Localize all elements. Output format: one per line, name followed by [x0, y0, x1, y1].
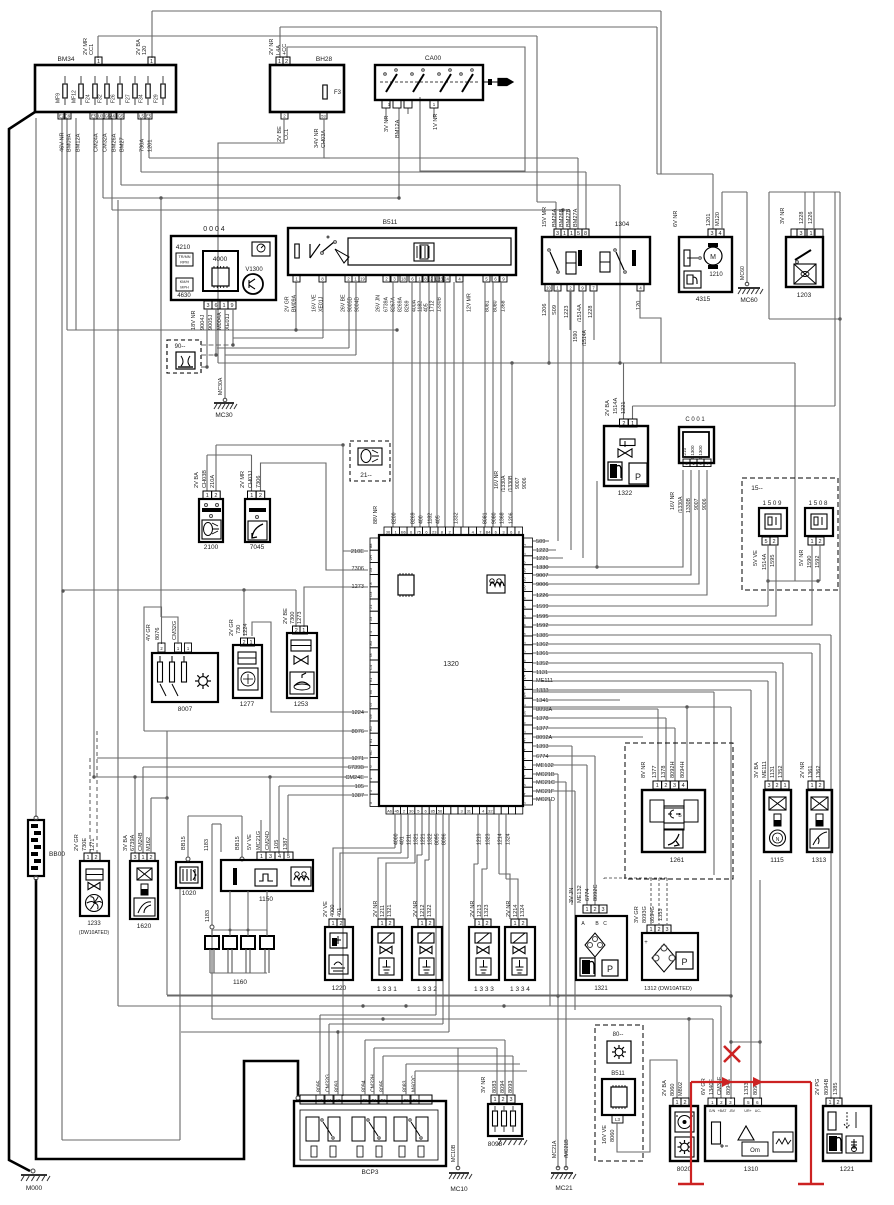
svg-text:9006: 9006: [536, 582, 548, 588]
svg-text:210A: 210A: [210, 475, 216, 488]
svg-text:BM12A: BM12A: [395, 119, 401, 138]
svg-text:1333: 1333: [536, 688, 548, 694]
svg-text:XE01J: XE01J: [225, 313, 231, 330]
svg-text:1131: 1131: [536, 670, 548, 676]
svg-text:1160: 1160: [233, 979, 247, 986]
svg-text:1352: 1352: [536, 661, 548, 667]
svg-text:BB00: BB00: [49, 851, 65, 858]
svg-text:80: 80: [368, 640, 373, 645]
svg-text:2V NR: 2V NR: [269, 39, 275, 55]
svg-text:1226: 1226: [808, 212, 814, 224]
svg-text:9007: 9007: [515, 477, 521, 489]
svg-text:1352: 1352: [778, 766, 784, 778]
svg-text:MC21B: MC21B: [536, 772, 555, 778]
svg-text:2V NR: 2V NR: [506, 901, 512, 917]
svg-text:1223: 1223: [536, 548, 548, 554]
svg-text:N: N: [776, 837, 780, 843]
svg-text:26V BE: 26V BE: [341, 294, 347, 312]
svg-text:3: 3: [665, 927, 668, 933]
svg-text:CH03J: CH03J: [248, 471, 254, 488]
svg-text:2: 2: [501, 1097, 504, 1103]
svg-text:A5: A5: [335, 1098, 341, 1103]
svg-text:1: 1: [783, 783, 786, 789]
svg-text:1150: 1150: [259, 896, 273, 903]
svg-text:4000: 4000: [213, 256, 228, 263]
svg-text:MC30: MC30: [215, 412, 233, 419]
svg-text:2: 2: [593, 907, 596, 913]
svg-text:M: M: [710, 254, 716, 261]
svg-text:730E: 730E: [82, 838, 88, 851]
svg-text:1323: 1323: [484, 905, 490, 917]
svg-text:CC1: CC1: [89, 44, 95, 55]
svg-text:2V VE: 2V VE: [323, 901, 329, 917]
svg-text:1362: 1362: [536, 642, 548, 648]
svg-text:1V NR: 1V NR: [433, 114, 439, 130]
svg-text:C4: C4: [368, 664, 373, 670]
svg-text:1310: 1310: [744, 1166, 759, 1173]
svg-text:1224: 1224: [352, 710, 364, 716]
svg-text:1211: 1211: [380, 905, 386, 917]
svg-text:5V NR: 5V NR: [799, 550, 805, 566]
svg-text:F3: F3: [334, 90, 342, 96]
svg-text:P: P: [635, 472, 641, 482]
svg-text:1253: 1253: [294, 701, 309, 708]
svg-text:35: 35: [522, 576, 527, 581]
svg-text:6: 6: [214, 303, 217, 309]
svg-text:2: 2: [388, 921, 391, 927]
svg-text:3: 3: [206, 303, 209, 309]
svg-text:2: 2: [664, 783, 667, 789]
svg-text:15--: 15--: [751, 485, 763, 492]
svg-text:1213: 1213: [477, 905, 483, 917]
svg-text:MC10B: MC10B: [451, 1144, 457, 1162]
svg-text:MC21F: MC21F: [536, 789, 555, 795]
svg-text:UR+: UR+: [744, 1109, 751, 1113]
svg-text:C5: C5: [403, 1098, 409, 1103]
svg-text:2: 2: [149, 855, 152, 861]
svg-text:1020: 1020: [182, 890, 197, 897]
svg-text:8200: 8200: [392, 512, 398, 524]
svg-text:BB15: BB15: [235, 836, 241, 850]
svg-text:C 0 0 1: C 0 0 1: [685, 417, 705, 423]
svg-text:2: 2: [295, 628, 298, 634]
svg-text:1212: 1212: [420, 905, 426, 917]
svg-text:1592: 1592: [536, 623, 548, 629]
svg-text:23: 23: [432, 530, 437, 535]
svg-text:1: 1: [249, 640, 252, 646]
svg-text:8269: 8269: [405, 300, 411, 312]
svg-text:7045: 7045: [250, 544, 265, 551]
svg-text:1: 1: [380, 921, 383, 927]
svg-text:6V GR: 6V GR: [701, 1078, 707, 1095]
svg-text:2: 2: [339, 921, 342, 927]
svg-text:D6: D6: [522, 585, 527, 591]
svg-text:V1300: V1300: [245, 267, 263, 273]
svg-text:1: 1: [631, 421, 634, 427]
svg-text:26V JN: 26V JN: [376, 295, 382, 312]
svg-text:1115: 1115: [770, 857, 784, 864]
svg-text:/1330A: /1330A: [501, 475, 507, 492]
svg-text:CH03B: CH03B: [202, 470, 208, 488]
svg-text:6774: 6774: [585, 889, 591, 901]
svg-text:MC21D: MC21D: [536, 797, 555, 803]
svg-text:1324: 1324: [520, 905, 526, 917]
svg-text:1206: 1206: [509, 512, 515, 524]
svg-text:730A: 730A: [140, 139, 146, 152]
svg-text:E5: E5: [146, 114, 152, 119]
svg-text:ME132: ME132: [536, 763, 554, 769]
svg-text:69: 69: [368, 714, 373, 719]
svg-text:1385: 1385: [833, 1083, 839, 1095]
svg-text:MF12: MF12: [72, 90, 78, 103]
svg-text:C1300: C1300: [690, 445, 695, 459]
svg-text:3V NR: 3V NR: [481, 1077, 487, 1093]
svg-text:8092C: 8092C: [593, 885, 599, 901]
svg-text:16V VE: 16V VE: [602, 1125, 608, 1144]
svg-text:8092H: 8092H: [670, 762, 676, 778]
svg-text:/1514A: /1514A: [577, 304, 583, 322]
svg-text:19: 19: [360, 277, 365, 282]
svg-text:-BV: -BV: [729, 1109, 736, 1113]
svg-text:G5: G5: [118, 114, 124, 119]
svg-text:1273: 1273: [297, 612, 303, 624]
svg-text:/MC21B: /MC21B: [564, 1139, 570, 1158]
svg-text:9006: 9006: [522, 477, 528, 489]
svg-text:1: 1: [675, 1100, 678, 1106]
svg-text:XE01J: XE01J: [319, 296, 325, 312]
svg-text:2: 2: [772, 539, 775, 545]
svg-text:2: 2: [485, 921, 488, 927]
svg-text:1: 1: [141, 855, 144, 861]
svg-text:1 3 3 2: 1 3 3 2: [417, 986, 437, 993]
svg-text:21: 21: [368, 604, 373, 609]
svg-text:1203: 1203: [797, 292, 812, 299]
svg-text:3V NR: 3V NR: [780, 208, 786, 224]
svg-text:1183: 1183: [204, 839, 210, 851]
svg-text:2: 2: [94, 855, 97, 861]
svg-text:1221: 1221: [421, 833, 427, 845]
svg-text:CM24A: CM24A: [94, 133, 100, 152]
svg-text:91: 91: [368, 677, 373, 682]
svg-text:MF9: MF9: [56, 93, 62, 103]
svg-text:509: 509: [536, 539, 545, 545]
svg-text:3V NR: 3V NR: [384, 116, 390, 132]
svg-text:2V BE: 2V BE: [277, 126, 283, 142]
svg-text:9C: 9C: [368, 750, 373, 755]
svg-text:1368: 1368: [500, 512, 506, 524]
svg-text:1377: 1377: [652, 766, 658, 778]
svg-text:1: 1: [477, 921, 480, 927]
svg-text:1 5 0 8: 1 5 0 8: [809, 500, 828, 507]
svg-text:1: 1: [656, 783, 659, 789]
svg-text:56: 56: [522, 710, 527, 715]
svg-text:4: 4: [278, 854, 281, 860]
svg-text:1341: 1341: [536, 698, 548, 704]
svg-text:1: 1: [810, 783, 813, 789]
svg-text:2: 2: [775, 783, 778, 789]
svg-text:2V NR: 2V NR: [373, 901, 379, 917]
svg-text:1223: 1223: [564, 306, 570, 318]
svg-text:3: 3: [673, 783, 676, 789]
svg-text:1228: 1228: [799, 212, 805, 224]
svg-text:8: 8: [584, 231, 587, 237]
svg-text:1 3 3 3: 1 3 3 3: [474, 986, 494, 993]
svg-text:1131: 1131: [770, 766, 776, 778]
svg-text:1: 1: [260, 854, 263, 860]
svg-text:4315: 4315: [696, 296, 711, 303]
svg-text:1320: 1320: [443, 661, 459, 668]
svg-text:1201: 1201: [148, 140, 154, 152]
svg-text:46V NR: 46V NR: [60, 132, 66, 152]
svg-text:2: 2: [242, 640, 245, 646]
svg-text:ME132: ME132: [577, 885, 583, 903]
svg-text:+: +: [644, 940, 648, 946]
svg-text:RPM: RPM: [180, 261, 188, 265]
svg-text:MPH: MPH: [180, 286, 189, 290]
svg-text:/1514A: /1514A: [582, 329, 588, 346]
svg-text:1: 1: [493, 1097, 496, 1103]
svg-text:8081: 8081: [483, 512, 489, 524]
svg-text:1261: 1261: [670, 857, 685, 864]
svg-text:56: 56: [438, 809, 443, 814]
svg-text:1321: 1321: [414, 833, 420, 845]
svg-text:F29: F29: [154, 94, 160, 103]
svg-text:1362: 1362: [816, 766, 822, 778]
svg-text:1226: 1226: [536, 593, 548, 599]
svg-text:8098A: 8098A: [536, 707, 552, 713]
svg-text:1: 1: [810, 539, 813, 545]
svg-text:1220: 1220: [332, 985, 347, 992]
svg-text:1323: 1323: [486, 833, 492, 845]
svg-text:CC1: CC1: [284, 129, 290, 140]
svg-text:CM24B: CM24B: [138, 832, 144, 851]
svg-text:5: 5: [287, 854, 290, 860]
svg-text:8269A: 8269A: [398, 296, 404, 312]
svg-text:6774: 6774: [536, 754, 548, 760]
svg-text:P: P: [607, 964, 613, 974]
svg-text:BM26A: BM26A: [552, 208, 558, 227]
svg-text:1712: 1712: [430, 300, 436, 312]
svg-text:1213: 1213: [477, 833, 483, 845]
svg-text:KM/H: KM/H: [180, 280, 190, 284]
svg-text:BM26A: BM26A: [112, 133, 118, 152]
svg-text:24: 24: [444, 277, 449, 282]
svg-text:1224: 1224: [243, 624, 249, 636]
svg-text:90--: 90--: [175, 344, 186, 350]
svg-text:F34: F34: [139, 94, 145, 103]
svg-text:53: 53: [368, 616, 373, 621]
svg-text:/1330B: /1330B: [508, 475, 514, 492]
svg-text:5: 5: [577, 231, 580, 237]
svg-text:3: 3: [133, 855, 136, 861]
svg-text:8V NR: 8V NR: [641, 762, 647, 778]
svg-text:36: 36: [522, 567, 527, 572]
svg-text:Om: Om: [750, 1148, 760, 1154]
svg-text:MC21C: MC21C: [536, 780, 555, 786]
svg-text:9005B: 9005B: [348, 296, 354, 312]
svg-text:+BAT: +BAT: [718, 1109, 728, 1113]
svg-text:A1: A1: [326, 1098, 332, 1103]
svg-text:1: 1: [97, 59, 100, 65]
svg-text:3: 3: [269, 854, 272, 860]
svg-text:1620: 1620: [137, 923, 152, 930]
svg-text:8095: 8095: [435, 833, 441, 845]
svg-text:45: 45: [395, 809, 400, 814]
svg-text:3V GR: 3V GR: [634, 906, 640, 923]
svg-text:4V GR: 4V GR: [146, 624, 152, 641]
svg-text:8076: 8076: [155, 628, 161, 640]
svg-text:15V MR: 15V MR: [542, 207, 548, 227]
svg-text:S09: S09: [552, 305, 558, 315]
svg-text:MC21: MC21: [555, 1185, 573, 1192]
svg-text:(DW10ATED): (DW10ATED): [79, 930, 110, 936]
svg-text:1 3 3 4: 1 3 3 4: [510, 986, 530, 993]
svg-text:1277: 1277: [240, 701, 255, 708]
svg-text:M004A: M004A: [217, 312, 223, 330]
svg-text:1324: 1324: [506, 833, 512, 845]
svg-text:10: 10: [546, 286, 551, 291]
svg-text:1206: 1206: [542, 304, 548, 316]
svg-text:C2: C2: [412, 1098, 418, 1103]
svg-text:BM27A: BM27A: [573, 208, 579, 227]
svg-text:210E: 210E: [351, 549, 364, 555]
svg-text:8094H: 8094H: [680, 762, 686, 778]
svg-text:85: 85: [431, 809, 436, 814]
svg-text:2V BA: 2V BA: [662, 1080, 668, 1096]
svg-text:88V NR: 88V NR: [373, 506, 379, 524]
svg-text:TR/MN: TR/MN: [178, 255, 190, 259]
svg-text:120: 120: [142, 46, 148, 55]
svg-text:F24: F24: [86, 94, 92, 103]
svg-text:CA00: CA00: [425, 55, 442, 62]
svg-text:2: 2: [521, 921, 524, 927]
svg-text:6739A: 6739A: [384, 296, 390, 312]
svg-text:BB15: BB15: [181, 836, 187, 850]
svg-text:6739A: 6739A: [130, 835, 136, 851]
svg-text:4: 4: [718, 231, 721, 237]
svg-text:1313: 1313: [812, 857, 827, 864]
svg-text:1321: 1321: [594, 986, 608, 992]
svg-text:18V NR: 18V NR: [191, 310, 197, 330]
svg-text:1221: 1221: [536, 556, 548, 562]
svg-text:9005J: 9005J: [208, 315, 214, 330]
svg-text:+CC: +CC: [282, 44, 288, 55]
svg-text:53: 53: [368, 567, 373, 572]
svg-text:BM34: BM34: [58, 56, 75, 63]
svg-text:BM27B: BM27B: [566, 208, 572, 227]
svg-text:BM09A: BM09A: [292, 294, 298, 312]
svg-text:1361: 1361: [808, 766, 814, 778]
svg-text:1387: 1387: [352, 793, 364, 799]
svg-text:8020: 8020: [677, 1166, 692, 1173]
svg-text:1514A: 1514A: [613, 398, 619, 414]
svg-text:2V BA: 2V BA: [605, 400, 611, 416]
svg-text:2: 2: [818, 783, 821, 789]
svg-text:1322: 1322: [428, 833, 434, 845]
svg-text:1378: 1378: [661, 766, 667, 778]
svg-text:1: 1: [420, 921, 423, 927]
svg-text:3: 3: [601, 907, 604, 913]
svg-text:9007: 9007: [536, 573, 548, 579]
svg-text:3: 3: [710, 231, 713, 237]
svg-text:1: 1: [331, 921, 334, 927]
svg-text:1599: 1599: [536, 604, 548, 610]
svg-text:8007: 8007: [178, 706, 193, 713]
svg-text:C: C: [603, 921, 607, 927]
svg-text:F27: F27: [126, 94, 132, 103]
svg-text:9: 9: [230, 303, 233, 309]
svg-text:67: 67: [368, 701, 373, 706]
svg-text:1183: 1183: [205, 910, 211, 922]
svg-text:CM32G: CM32G: [172, 621, 178, 640]
svg-text:1333: 1333: [744, 1083, 750, 1095]
svg-text:1182: 1182: [428, 513, 434, 524]
svg-text:2V BE: 2V BE: [283, 608, 289, 624]
svg-text:2: 2: [285, 59, 288, 65]
svg-text:105: 105: [355, 784, 364, 790]
svg-text:2: 2: [622, 421, 625, 427]
svg-text:1321: 1321: [387, 905, 393, 917]
svg-text:BM12A: BM12A: [76, 133, 82, 152]
svg-text:2: 2: [683, 1100, 686, 1106]
svg-text:2V MR: 2V MR: [240, 471, 246, 488]
svg-text:1377: 1377: [536, 726, 548, 732]
svg-text:1214: 1214: [498, 833, 504, 845]
svg-text:MC10: MC10: [450, 1186, 468, 1193]
svg-text:8098: 8098: [488, 1141, 503, 1148]
svg-text:8060: 8060: [610, 1130, 616, 1142]
svg-text:1221: 1221: [621, 402, 627, 414]
svg-text:2H: 2H: [368, 555, 373, 560]
svg-text:1595: 1595: [770, 555, 776, 567]
svg-text:B2: B2: [380, 1098, 386, 1103]
svg-text:1: 1: [222, 303, 225, 309]
svg-text:1378: 1378: [536, 716, 548, 722]
svg-text:CM24E: CM24E: [345, 775, 364, 781]
svg-text:1: 1: [278, 59, 281, 65]
svg-text:BM09A: BM09A: [67, 133, 73, 152]
svg-text:UC-: UC-: [755, 1109, 762, 1113]
svg-text:2: 2: [836, 1100, 839, 1106]
svg-text:4: 4: [682, 783, 685, 789]
svg-text:G/N: G/N: [709, 1109, 716, 1113]
svg-text:18: 18: [401, 277, 406, 282]
svg-text:1: 1: [649, 927, 652, 933]
svg-text:1: 1: [150, 59, 153, 65]
svg-text:8093G: 8093G: [642, 906, 648, 923]
svg-text:2: 2: [259, 493, 262, 499]
svg-text:1: 1: [302, 628, 305, 634]
svg-text:B511: B511: [383, 219, 398, 226]
svg-text:CM32A: CM32A: [103, 133, 109, 152]
svg-text:16V NR: 16V NR: [494, 471, 500, 489]
svg-text:14: 14: [522, 674, 527, 679]
svg-text:E5: E5: [91, 114, 97, 119]
svg-text:1 3 3 1: 1 3 3 1: [377, 986, 397, 993]
svg-text:9080: 9080: [492, 512, 498, 524]
svg-text:53: 53: [321, 114, 326, 119]
svg-text:36: 36: [386, 530, 391, 535]
svg-text:7300: 7300: [290, 612, 296, 624]
svg-text:L3: L3: [615, 1117, 620, 1122]
svg-text:B4: B4: [522, 692, 527, 698]
svg-text:16V VE: 16V VE: [312, 294, 318, 312]
svg-text:47: 47: [522, 737, 527, 742]
svg-text:2V GR: 2V GR: [229, 619, 235, 636]
svg-text:1322: 1322: [618, 490, 633, 497]
svg-text:B1: B1: [371, 1098, 377, 1103]
svg-text:1: 1: [250, 493, 253, 499]
